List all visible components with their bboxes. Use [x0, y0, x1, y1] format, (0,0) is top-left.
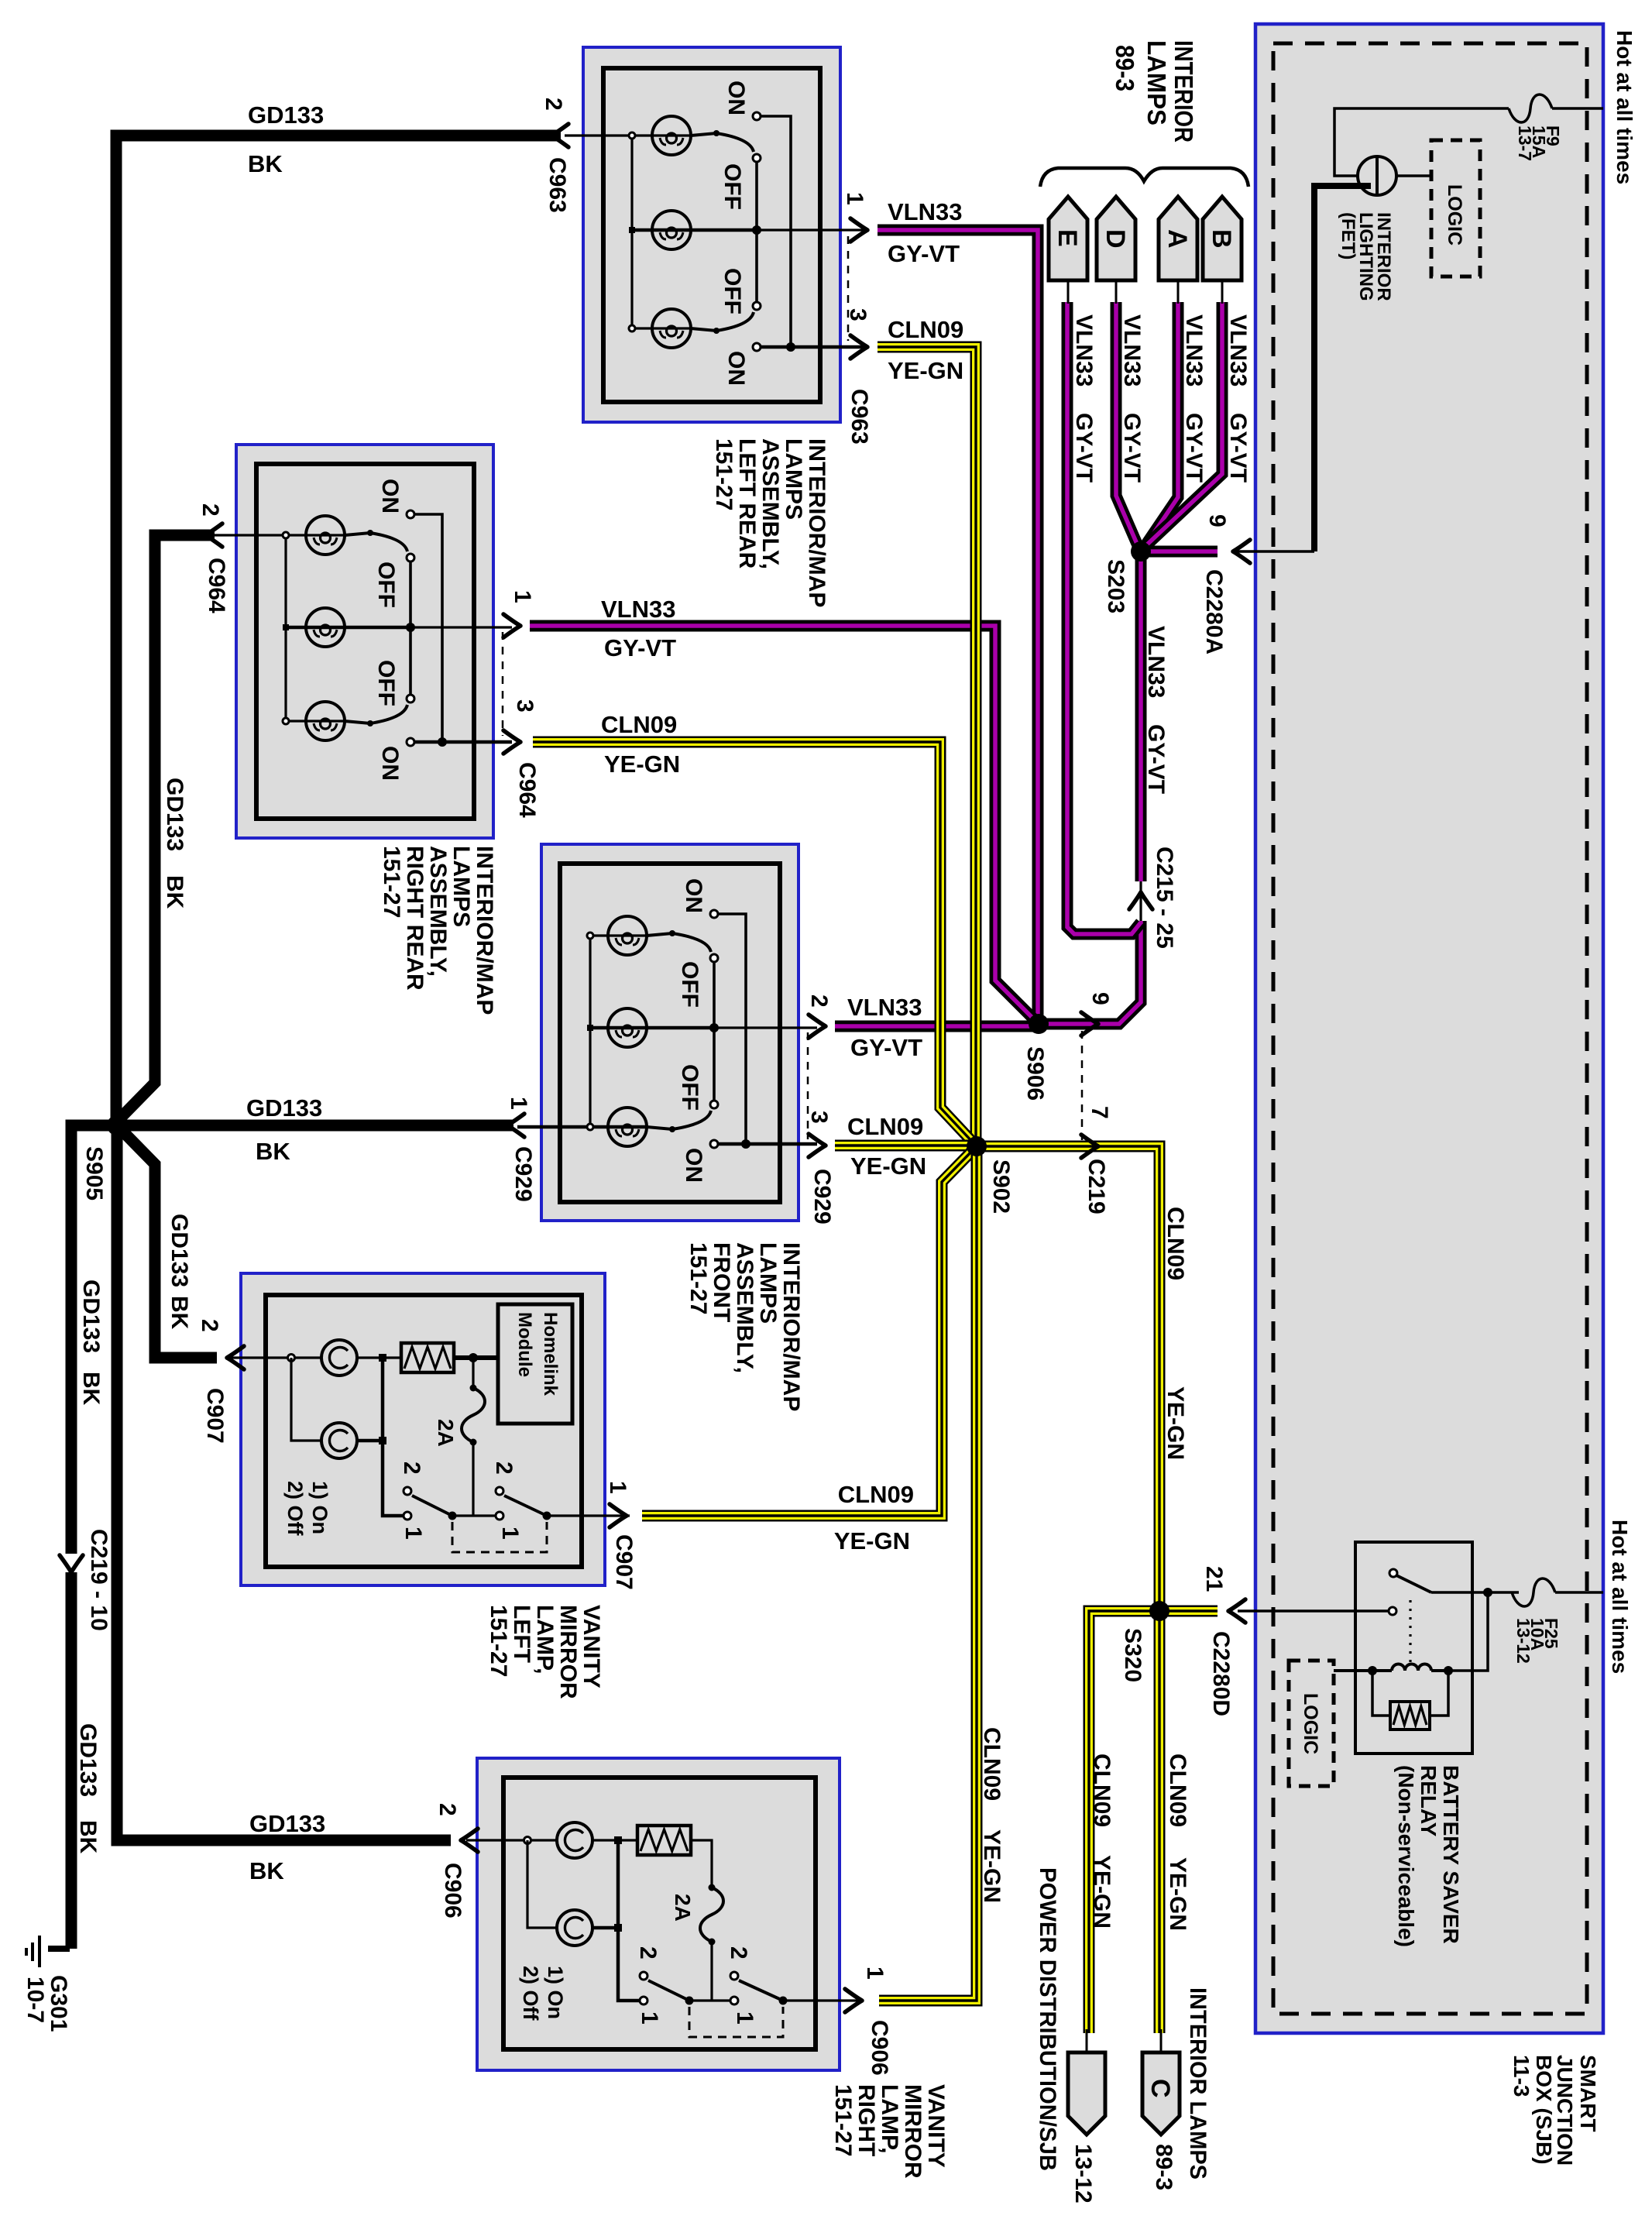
wire GD133 BK S905 to C219-10 to G301 ground	[71, 1125, 117, 1554]
svg-text:VLN33: VLN33	[1181, 314, 1207, 386]
svg-text:GY-VT: GY-VT	[850, 1034, 922, 1061]
connector C2280D pin 21	[1238, 1609, 1389, 1613]
svg-text:GD133: GD133	[167, 1214, 192, 1287]
bulb 2 C929	[608, 1008, 647, 1047]
pin stub D	[1115, 280, 1118, 304]
smart junction box SJB outline	[1255, 24, 1603, 2033]
splice S905	[107, 1115, 127, 1135]
ground G301	[48, 1946, 70, 1952]
svg-text:3: 3	[806, 1111, 832, 1124]
svg-text:2: 2	[491, 1462, 517, 1475]
pin stub bottom C	[1160, 2029, 1163, 2052]
svg-text:B: B	[1207, 229, 1236, 249]
svg-text:13-12: 13-12	[1070, 2144, 1096, 2204]
bulb 3 C964	[306, 702, 345, 740]
svg-text:2) Off: 2) Off	[519, 1966, 542, 2021]
switch arm bottom C963	[691, 312, 754, 331]
svg-text:2: 2	[399, 1462, 424, 1475]
svg-text:ON: ON	[377, 746, 403, 781]
svg-text:1: 1	[510, 590, 535, 603]
bulb 1 C964	[306, 516, 345, 555]
svg-text:1: 1	[862, 1967, 888, 1980]
svg-text:GY-VT: GY-VT	[1071, 413, 1097, 483]
svg-text:RIGHT REAR: RIGHT REAR	[402, 846, 428, 991]
svg-text:2: 2	[806, 994, 832, 1008]
svg-text:OFF: OFF	[720, 163, 745, 210]
connector C215-25	[1139, 881, 1142, 921]
wire VLN33 GY-VT connector B to S203	[1146, 302, 1222, 545]
terminal C906	[524, 1837, 531, 1844]
svg-text:VLN33: VLN33	[1143, 626, 1169, 698]
svg-text:2A: 2A	[434, 1419, 458, 1447]
connector C907 pin 2	[227, 1346, 244, 1369]
wire to switches C906	[618, 1840, 644, 2001]
svg-text:OFF: OFF	[720, 268, 745, 314]
svg-text:VANITY: VANITY	[923, 2084, 949, 2168]
switch arm bottom C964	[345, 705, 407, 723]
switch 1 C906	[640, 1972, 647, 1980]
circuit breaker 2A C907	[472, 1358, 474, 1388]
svg-text:CLN09: CLN09	[601, 711, 677, 738]
terminal C907	[288, 1355, 295, 1362]
svg-text:GY-VT: GY-VT	[1225, 413, 1251, 483]
svg-text:CLN09: CLN09	[1089, 1754, 1114, 1827]
bulb terminals C963	[629, 132, 635, 139]
svg-text:1: 1	[497, 1527, 523, 1540]
switch gang dashed link C907	[452, 1522, 547, 1552]
svg-text:ASSEMBLY,: ASSEMBLY,	[425, 846, 451, 977]
svg-text:BK: BK	[78, 1372, 104, 1406]
svg-text:2: 2	[541, 98, 566, 111]
connector C964 pin 1	[503, 614, 520, 637]
fuse F25 10A circuit	[1488, 1591, 1519, 1594]
svg-text:YE-GN: YE-GN	[1089, 1855, 1114, 1929]
switch ON contact line C964	[414, 514, 442, 742]
wire CLN09 YE-GN S902 to C219 pin7 to S320	[977, 1146, 1159, 1611]
svg-text:GY-VT: GY-VT	[888, 240, 960, 267]
svg-text:C215 - 25: C215 - 25	[1152, 847, 1177, 949]
interior/map lamps assembly left rear box C963	[583, 47, 840, 422]
resistor C907	[383, 1356, 401, 1359]
svg-text:LAMPS: LAMPS	[755, 1242, 781, 1324]
svg-text:(Non-serviceable): (Non-serviceable)	[1394, 1765, 1418, 1947]
svg-text:C906: C906	[440, 1863, 465, 1918]
switch arm bottom C929	[647, 1111, 711, 1129]
svg-text:10-7: 10-7	[22, 1977, 48, 2023]
svg-text:C2280D: C2280D	[1208, 1631, 1234, 1716]
svg-text:INTERIOR LAMPS: INTERIOR LAMPS	[1185, 1987, 1211, 2179]
svg-text:3: 3	[512, 699, 538, 713]
svg-text:7: 7	[1087, 1106, 1112, 1119]
wire CLN09 YE-GN C963 pin3 to S902	[878, 347, 976, 1142]
svg-text:OFF: OFF	[373, 562, 399, 608]
wire pin2 row C907	[228, 1356, 291, 1359]
wire VLN33 GY-VT connector A to S203	[1144, 302, 1178, 548]
connector C963 pin 1	[850, 218, 867, 242]
bulb terminals C964	[283, 532, 289, 538]
wire CLN09 YE-GN S902 to C906 pin1	[879, 1146, 977, 2001]
bulb 2 C963	[652, 211, 691, 249]
svg-text:GD133: GD133	[78, 1280, 104, 1353]
switch gang dashed link C906	[689, 2007, 783, 2037]
wire CLN09 YE-GN S320 to power distribution SJB	[1089, 1611, 1159, 2033]
svg-text:(FET): (FET)	[1338, 212, 1358, 259]
wire bulb bus C964	[284, 535, 287, 721]
svg-text:1: 1	[605, 1481, 630, 1494]
svg-text:2A: 2A	[671, 1894, 695, 1922]
svg-text:ON: ON	[681, 878, 706, 913]
svg-text:GY-VT: GY-VT	[604, 634, 676, 661]
svg-text:13-7: 13-7	[1515, 125, 1535, 161]
relay resistor	[1372, 1671, 1390, 1716]
wire bulb row3 C963	[632, 327, 691, 329]
svg-text:Homelink: Homelink	[540, 1312, 561, 1396]
wire bulb bus C963	[630, 136, 633, 328]
svg-text:POWER DISTRIBUTION/SJB: POWER DISTRIBUTION/SJB	[1035, 1867, 1060, 2171]
svg-text:BK: BK	[248, 150, 283, 177]
svg-text:2: 2	[197, 1319, 222, 1332]
connector C964 dashed link	[502, 632, 504, 736]
svg-text:LAMPS: LAMPS	[448, 846, 474, 927]
svg-text:VLN33: VLN33	[847, 994, 922, 1021]
svg-text:89-3: 89-3	[1111, 45, 1139, 91]
svg-text:S320: S320	[1120, 1628, 1145, 1682]
svg-text:21: 21	[1201, 1566, 1227, 1592]
svg-text:S203: S203	[1103, 559, 1128, 613]
bulb 1 C963	[652, 116, 691, 155]
svg-text:BK: BK	[249, 1857, 284, 1884]
svg-text:BATTERY SAVER: BATTERY SAVER	[1439, 1765, 1463, 1944]
svg-text:INTERIOR/MAP: INTERIOR/MAP	[778, 1242, 804, 1411]
svg-text:INTERIOR/MAP: INTERIOR/MAP	[804, 438, 829, 607]
FET interior lighting	[1358, 156, 1396, 195]
wire bulb row1 C963	[565, 134, 691, 136]
splice S203	[1131, 541, 1151, 562]
svg-text:1: 1	[400, 1527, 426, 1540]
svg-text:89-3: 89-3	[1151, 2144, 1176, 2190]
svg-text:GD133: GD133	[249, 1810, 325, 1837]
svg-text:RELAY: RELAY	[1417, 1765, 1441, 1837]
svg-text:GY-VT: GY-VT	[1181, 413, 1207, 483]
switch 1 C907	[404, 1487, 411, 1495]
svg-text:MIRROR: MIRROR	[555, 1605, 581, 1699]
svg-text:LOGIC: LOGIC	[1300, 1693, 1321, 1754]
svg-text:Hot at all times: Hot at all times	[1608, 1520, 1632, 1674]
connector C929 pin 3	[809, 1134, 826, 1157]
svg-text:C907: C907	[202, 1388, 228, 1444]
svg-text:151-27: 151-27	[685, 1242, 711, 1314]
bulb 1 C906	[557, 1822, 592, 1858]
svg-text:C219 - 10: C219 - 10	[86, 1529, 112, 1631]
svg-text:S906: S906	[1022, 1046, 1048, 1101]
svg-text:CLN09: CLN09	[1165, 1754, 1190, 1827]
interior/map lamps assembly right rear box C964	[236, 445, 493, 838]
battery saver relay box	[1355, 1542, 1472, 1754]
wire bulb row2 C963 (output row)	[632, 228, 757, 232]
wire VLN33 GY-VT C215-25 to S203	[1135, 551, 1147, 881]
switch OFF contact line C964	[409, 558, 412, 699]
svg-text:YE-GN: YE-GN	[850, 1152, 926, 1180]
svg-text:2: 2	[197, 503, 223, 517]
wire GD133 BK S905 to C906 pin2	[117, 1125, 451, 1840]
bulb 2 C964	[306, 608, 345, 647]
svg-text:C964: C964	[204, 558, 229, 613]
wire bulb row1 C929	[590, 934, 647, 936]
circuit breaker 2A C906	[700, 1888, 723, 1942]
connector C964 pin 2	[205, 524, 222, 547]
svg-text:LAMPS: LAMPS	[1142, 40, 1171, 125]
connector C906 pin 2	[461, 1829, 478, 1852]
brace over interior lamps connectors	[1040, 168, 1248, 187]
svg-text:GD133: GD133	[75, 1723, 101, 1797]
svg-text:YE-GN: YE-GN	[979, 1829, 1005, 1903]
wire CLN09 YE-GN C929 pin3 to S902	[835, 1140, 977, 1152]
splice S320	[1149, 1601, 1169, 1621]
splice S902	[967, 1136, 987, 1156]
svg-text:LAMPS: LAMPS	[781, 438, 806, 520]
svg-text:C929: C929	[809, 1169, 835, 1225]
svg-text:MIRROR: MIRROR	[900, 2084, 926, 2179]
connector C219 pin 7	[1081, 1135, 1098, 1158]
FET output wire to C2280A	[1314, 186, 1371, 551]
svg-text:GY-VT: GY-VT	[1119, 413, 1145, 483]
switch 2 C907	[496, 1487, 503, 1495]
wire pin2 row C906	[466, 1839, 527, 1841]
svg-text:YE-GN: YE-GN	[604, 751, 680, 778]
connector C907 pin 1	[610, 1504, 627, 1527]
wire bulb row3 C929	[517, 1125, 647, 1129]
svg-text:1) On: 1) On	[308, 1481, 331, 1534]
svg-text:VLN33: VLN33	[1225, 314, 1251, 386]
wire bulb row3 C964	[286, 720, 345, 722]
bulb terminals C929	[587, 933, 593, 939]
pin stub B	[1221, 280, 1224, 304]
svg-text:LOGIC: LOGIC	[1444, 184, 1465, 246]
connector C906 pin 1	[845, 1989, 862, 2012]
connector arrow B interior lamps	[1203, 197, 1242, 280]
svg-text:LEFT REAR: LEFT REAR	[734, 438, 760, 569]
connector arrow E interior lamps	[1049, 197, 1087, 280]
switch arm top C929	[647, 933, 711, 952]
connector C219 dashed link	[1081, 1031, 1084, 1140]
svg-text:VLN33: VLN33	[1071, 314, 1097, 386]
interior/map lamps assembly front box C929	[541, 844, 799, 1221]
fuse F9 15A circuit	[1552, 107, 1603, 110]
switch OFF contact line C963	[755, 158, 758, 306]
svg-text:OFF: OFF	[677, 1064, 702, 1111]
connector C929 pin 2	[809, 1015, 826, 1038]
wire GD133 BK S905 to C907 pin2	[117, 1125, 217, 1358]
svg-text:A: A	[1163, 229, 1192, 249]
svg-text:CLN09: CLN09	[1163, 1207, 1188, 1280]
wire CLN09 YE-GN S320 to interior lamps C	[1154, 1611, 1166, 2033]
svg-text:S902: S902	[988, 1159, 1014, 1214]
svg-text:1: 1	[842, 192, 867, 205]
wire VLN33 GY-VT C215-25 branch to connector E	[1067, 302, 1141, 934]
bulb 2 C907	[291, 1358, 321, 1441]
wire bulb bus C929	[589, 936, 591, 1127]
svg-text:ON: ON	[681, 1148, 706, 1183]
svg-text:13-12: 13-12	[1513, 1618, 1534, 1664]
svg-text:1: 1	[506, 1097, 531, 1110]
svg-text:9: 9	[1204, 514, 1230, 527]
relay actuation dotted line	[1409, 1600, 1411, 1662]
junction C907 resistor out	[454, 1355, 498, 1360]
svg-text:VLN33: VLN33	[601, 596, 675, 623]
wire CLN09 YE-GN C964 pin3 to S902	[533, 742, 974, 1144]
connector C929 pin 1	[507, 1114, 524, 1137]
svg-text:G301: G301	[46, 1975, 71, 2032]
svg-text:ASSEMBLY,: ASSEMBLY,	[732, 1242, 757, 1373]
svg-text:Module: Module	[514, 1312, 535, 1377]
svg-text:FRONT: FRONT	[709, 1242, 734, 1322]
wire GD133 BK C964 pin2 to S905	[117, 535, 215, 1122]
wire CLN09 YE-GN S902 to C907 pin1	[642, 1146, 977, 1516]
svg-text:C: C	[1145, 2079, 1175, 2098]
svg-text:C964: C964	[514, 762, 540, 818]
svg-text:Hot at all times: Hot at all times	[1613, 30, 1637, 184]
svg-text:YE-GN: YE-GN	[1163, 1386, 1188, 1460]
vanity mirror lamp left box C907	[241, 1273, 605, 1585]
wire VLN33 GY-VT C963 pin1 to S906	[878, 230, 1038, 1019]
svg-text:INTERIOR: INTERIOR	[1169, 40, 1198, 143]
bulb 1 C929	[608, 916, 647, 955]
pin stub E	[1067, 280, 1070, 304]
svg-text:S905: S905	[81, 1146, 107, 1201]
svg-text:VLN33: VLN33	[888, 198, 962, 225]
connector arrow power distribution bottom	[1068, 2052, 1105, 2135]
svg-text:151-27: 151-27	[486, 1605, 511, 1677]
wire VLN33 GY-VT S906 to C219 pin9 to C215-25	[1039, 921, 1141, 1024]
svg-text:C906: C906	[867, 2020, 892, 2076]
connector C963 dashed link	[847, 236, 850, 341]
svg-text:SMART: SMART	[1576, 2055, 1600, 2132]
switch arm top C964	[345, 533, 407, 551]
resistor C906	[618, 1839, 637, 1841]
svg-text:CLN09: CLN09	[888, 316, 963, 343]
svg-text:GY-VT: GY-VT	[1143, 724, 1169, 794]
svg-text:151-27: 151-27	[711, 438, 737, 510]
label SMART JUNCTION BOX (SJB) 11-3	[1509, 2055, 1600, 2166]
svg-text:D: D	[1101, 229, 1130, 249]
svg-text:VLN33: VLN33	[1119, 314, 1145, 386]
switch ON contact line C963	[761, 116, 791, 347]
connector C963 pin 2	[551, 124, 568, 147]
wire VLN33 GY-VT C929 pin2 to S906	[835, 1021, 1039, 1032]
svg-text:151-27: 151-27	[830, 2084, 856, 2156]
svg-text:OFF: OFF	[373, 660, 399, 706]
svg-text:RIGHT: RIGHT	[853, 2084, 879, 2156]
wire GD133 BK C963 pin2 to S905	[116, 136, 561, 1125]
bulb 1 C907	[321, 1340, 357, 1376]
svg-text:ON: ON	[723, 81, 749, 115]
svg-text:BK: BK	[256, 1138, 290, 1165]
svg-text:CLN09: CLN09	[847, 1113, 923, 1140]
svg-text:C929: C929	[510, 1146, 536, 1202]
svg-text:BOX (SJB): BOX (SJB)	[1532, 2055, 1556, 2165]
svg-text:151-27: 151-27	[379, 846, 404, 918]
svg-text:YE-GN: YE-GN	[888, 357, 963, 384]
svg-text:OFF: OFF	[677, 961, 702, 1008]
svg-text:YE-GN: YE-GN	[834, 1527, 910, 1554]
svg-text:YE-GN: YE-GN	[1165, 1857, 1190, 1931]
switch OFF contact line C929	[713, 958, 716, 1104]
svg-text:C2280A: C2280A	[1201, 569, 1227, 654]
svg-text:C219: C219	[1084, 1159, 1109, 1214]
connector arrow C interior lamps bottom	[1142, 2052, 1180, 2135]
svg-text:GD133: GD133	[246, 1094, 322, 1122]
svg-text:CLN09: CLN09	[979, 1727, 1005, 1801]
connector arrow A interior lamps	[1159, 197, 1197, 280]
relay right junction	[1483, 1588, 1492, 1597]
wire GD133 BK S905 to C929 pin1	[117, 1120, 513, 1132]
svg-text:ON: ON	[723, 351, 749, 386]
switch ON contact line C929	[718, 914, 746, 1144]
bulb 3 C963	[652, 309, 691, 348]
connector C2280A pin 9	[1231, 550, 1314, 553]
svg-text:LAMP,: LAMP,	[877, 2084, 902, 2153]
relay coil	[1334, 1669, 1392, 1672]
logic box relay	[1289, 1661, 1334, 1786]
svg-text:2: 2	[434, 1803, 460, 1816]
svg-text:2: 2	[635, 1946, 661, 1960]
svg-text:BK: BK	[75, 1820, 101, 1854]
wire VLN33 GY-VT S203 to C2280A pin9	[1141, 546, 1218, 558]
svg-text:BK: BK	[167, 1296, 192, 1330]
switch 2 C906	[730, 1972, 738, 1980]
connector C963 pin 3	[850, 335, 867, 359]
splice S906	[1029, 1014, 1049, 1034]
bulb 2 C906	[527, 1840, 557, 1928]
svg-text:VANITY: VANITY	[579, 1605, 604, 1688]
svg-text:11-3: 11-3	[1509, 2055, 1534, 2097]
wire bulb row2 C929 (output row)	[590, 1026, 714, 1030]
wire bulb row1 C964	[215, 534, 345, 536]
svg-text:2) Off: 2) Off	[283, 1481, 307, 1537]
connector C219-10 on ground wire	[60, 1555, 83, 1572]
connector C929 dashed link	[807, 1032, 809, 1139]
svg-text:1: 1	[732, 2011, 757, 2025]
svg-text:9: 9	[1087, 992, 1113, 1005]
svg-text:GD133: GD133	[248, 101, 324, 129]
svg-text:1: 1	[637, 2011, 662, 2025]
wire bulb row2 C964 (output row)	[286, 626, 410, 630]
svg-text:BK: BK	[162, 875, 187, 909]
vanity mirror lamp right box C906	[477, 1758, 840, 2070]
svg-text:1) On: 1) On	[544, 1966, 567, 2019]
svg-text:LAMP,: LAMP,	[532, 1605, 558, 1674]
switch arm top C963	[691, 133, 754, 152]
svg-text:C963: C963	[544, 157, 570, 213]
svg-text:C963: C963	[847, 389, 872, 445]
connector C964 pin 3	[503, 730, 520, 754]
junction C906 bulb1	[614, 1836, 622, 1844]
homelink module box C907	[498, 1304, 572, 1424]
pin stub A	[1177, 280, 1180, 304]
bulb 3 C929	[608, 1108, 647, 1146]
svg-text:C907: C907	[611, 1534, 637, 1590]
svg-text:CLN09: CLN09	[838, 1481, 914, 1508]
wire VLN33 GY-VT connector D to S203	[1116, 302, 1139, 549]
wire VLN33 GY-VT C964 pin1 to S906	[530, 626, 1036, 1022]
svg-text:ON: ON	[377, 479, 403, 514]
svg-text:E: E	[1053, 229, 1082, 247]
SJB inner dashed border	[1273, 43, 1587, 2014]
connector arrow D interior lamps	[1097, 197, 1135, 280]
junction C907 bulb1	[379, 1354, 386, 1362]
connector C219 pin 9	[1081, 1012, 1098, 1036]
svg-text:LEFT: LEFT	[509, 1605, 534, 1663]
